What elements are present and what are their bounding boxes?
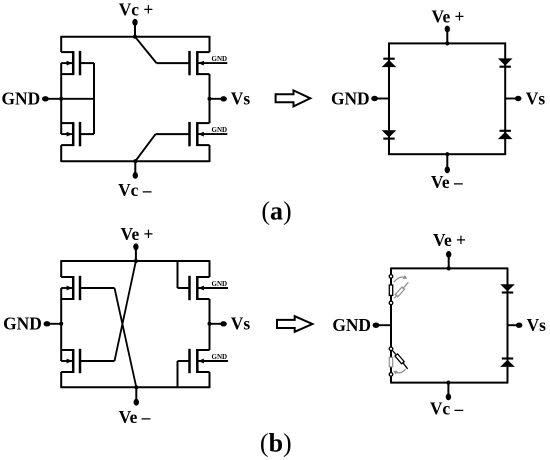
wire: bottom rail bbox=[61, 386, 209, 388]
M3 top-right bulk wire to GND with arrow bbox=[198, 62, 227, 64]
M4 bottom-right bulk wire to GND with arrow bbox=[198, 133, 227, 135]
M4 bottom-right channel bar bbox=[196, 122, 199, 146]
svg-text:Ve +: Ve + bbox=[121, 224, 154, 244]
node Vc+ terminal bbox=[134, 25, 136, 37]
M4 bottom-right gate wire bbox=[156, 133, 190, 135]
wire: left vertical segments bbox=[390, 268, 392, 274]
M6 bottom-left channel bar bbox=[72, 349, 75, 373]
M5 top-left gate bar bbox=[79, 276, 82, 300]
M8 bottom-right gate wire bbox=[178, 360, 190, 362]
M1 top-left gate wire bbox=[80, 62, 94, 64]
svg-text:GND: GND bbox=[212, 126, 228, 134]
wire: left rail upper segment bbox=[60, 260, 62, 277]
M2 bottom-left bulk wire with arrow bbox=[61, 133, 72, 135]
M4 bottom-right source wire bbox=[197, 144, 209, 146]
transistor M6 bottom-left (NMOS, channel bar left, gate to right) bbox=[61, 349, 114, 373]
M1 top-left gate bar bbox=[79, 51, 82, 75]
svg-text:Vs: Vs bbox=[231, 89, 251, 109]
block arrow (a) bbox=[276, 90, 311, 106]
svg-text:Vs: Vs bbox=[527, 315, 547, 335]
M8 bottom-right source wire bbox=[197, 371, 209, 373]
M7 top-right gate wire bbox=[178, 287, 190, 289]
switched resistor R2 (bottom-left) bbox=[389, 347, 407, 376]
M1 top-left bulk wire with arrow bbox=[61, 62, 72, 64]
node Vs terminal bbox=[210, 323, 224, 325]
transistor M4 bottom-right (NMOS, channel bar right, gate to left) bbox=[156, 122, 228, 146]
M3 top-right source wire bbox=[197, 73, 209, 75]
M8 bottom-right bulk wire to GND with arrow bbox=[198, 360, 228, 362]
block arrow (b) bbox=[277, 316, 312, 332]
svg-text:Ve +: Ve + bbox=[433, 230, 466, 250]
wire: right vertical bbox=[507, 268, 509, 382]
svg-text:GND: GND bbox=[212, 353, 228, 361]
wire: diagonal Vc- to M4 gate bbox=[135, 134, 155, 161]
junction: Ve+ on square bbox=[447, 266, 451, 270]
wire: right rail middle segment bbox=[209, 74, 211, 123]
M6 bottom-left drain wire bbox=[61, 349, 73, 351]
svg-text:Vc –: Vc – bbox=[118, 180, 152, 200]
svg-text:Ve –: Ve – bbox=[119, 407, 151, 427]
M3 top-right drain wire bbox=[197, 51, 209, 53]
wire: right rail upper segment bbox=[209, 260, 211, 277]
M3 top-right gate bar bbox=[188, 51, 191, 75]
transistor M3 top-right (NMOS, channel bar right, gate to left) bbox=[157, 51, 228, 75]
junction: Vc- on square bbox=[446, 381, 450, 385]
wire: top rail of square bbox=[390, 267, 508, 269]
svg-text:Vs: Vs bbox=[526, 88, 546, 108]
wire: M7 gate leg to top rail bbox=[177, 261, 179, 288]
node GND terminal bbox=[376, 324, 391, 326]
junction: Vc- on bottom rail bbox=[133, 159, 137, 163]
node Ve- terminal bbox=[135, 387, 137, 400]
M1 top-left source wire bbox=[61, 73, 73, 75]
M5 top-left source wire bbox=[61, 298, 73, 300]
diode D1 top-left (pointing up) bbox=[382, 60, 397, 67]
M2 bottom-left gate wire bbox=[80, 133, 94, 135]
M6 bottom-left gate bar bbox=[79, 349, 82, 373]
wire: left rail lower segment bbox=[60, 372, 62, 388]
M8 bottom-right drain wire bbox=[197, 349, 209, 351]
junction: Ve+ on square bbox=[445, 41, 449, 45]
diode D5 top-right (pointing down) bbox=[500, 284, 515, 291]
wire: right rail lower segment bbox=[209, 145, 211, 162]
M5 top-left gate wire bbox=[80, 287, 115, 289]
node GND terminal bbox=[45, 98, 94, 100]
M5 top-left bulk wire with arrow bbox=[61, 287, 72, 289]
svg-text:Ve –: Ve – bbox=[431, 172, 463, 192]
M8 bottom-right channel bar bbox=[196, 349, 199, 373]
svg-text:GND: GND bbox=[212, 55, 228, 63]
M1 top-left drain wire bbox=[61, 51, 73, 53]
wire: bridge square bbox=[389, 43, 505, 154]
node GND terminal bbox=[47, 323, 61, 325]
wire: diagonal Vc+ to M3 gate bbox=[135, 37, 157, 63]
M7 top-right source wire bbox=[197, 298, 209, 300]
svg-text:GND: GND bbox=[2, 89, 41, 109]
node Vc- terminal bbox=[134, 161, 136, 173]
M7 top-right drain wire bbox=[197, 276, 209, 278]
svg-text:(b): (b) bbox=[260, 429, 292, 458]
M6 bottom-left bulk wire with arrow bbox=[61, 360, 72, 362]
transistor M7 top-right (NMOS, channel bar right, gate to left) bbox=[178, 276, 229, 300]
diode D2 top-right (pointing down) bbox=[498, 58, 513, 65]
node Vs terminal bbox=[505, 98, 518, 100]
svg-text:GND: GND bbox=[331, 88, 370, 108]
wire: left gates vertical bbox=[93, 63, 95, 134]
wire: diagonal M5 gate to Ve- bbox=[115, 288, 137, 387]
wire: left bulk/source vertical bbox=[60, 288, 62, 361]
M4 bottom-right drain wire bbox=[197, 122, 209, 124]
wire: diagonal Ve+ to M6 gate bbox=[115, 261, 136, 361]
node Ve+ terminal bbox=[446, 32, 448, 44]
M1 top-left channel bar bbox=[72, 51, 75, 75]
M2 bottom-left channel bar bbox=[72, 122, 75, 146]
M3 top-right gate wire bbox=[157, 62, 190, 64]
diode D4 bottom-right (pointing up) bbox=[498, 132, 513, 139]
R1 alternate position (gray ghost resistor) bbox=[394, 282, 408, 298]
R1 rotation arrow (gray) bbox=[394, 277, 406, 282]
wire: right rail upper segment bbox=[209, 36, 211, 52]
M2 bottom-left gate bar bbox=[79, 122, 82, 146]
M2 bottom-left drain wire bbox=[61, 122, 73, 124]
transistor M2 bottom-left (NMOS, channel bar left, gate to right) bbox=[61, 122, 94, 146]
junction: Ve+ on top rail bbox=[134, 259, 138, 263]
diode D3 bottom-left (pointing down) bbox=[382, 130, 397, 137]
node Ve+ terminal bbox=[448, 257, 450, 268]
node Vs terminal bbox=[210, 98, 224, 100]
svg-text:GND: GND bbox=[212, 280, 228, 288]
wire: bottom rail of square bbox=[390, 382, 508, 384]
wire: M8 gate leg to bottom rail bbox=[177, 361, 179, 387]
node GND terminal bbox=[374, 98, 389, 100]
node Vc- terminal bbox=[447, 383, 449, 395]
wire: left bulk/source vertical bbox=[60, 63, 62, 134]
switched resistor R1 (top-left) bbox=[389, 275, 408, 305]
wire: left rail lower segment bbox=[60, 145, 62, 162]
M6 bottom-left gate wire bbox=[80, 360, 115, 362]
svg-text:Vc –: Vc – bbox=[430, 399, 464, 419]
wire: bottom rail bbox=[61, 160, 209, 162]
svg-text:GND: GND bbox=[3, 314, 42, 334]
transistor M8 bottom-right (NMOS, channel bar right, gate to left) bbox=[178, 349, 229, 373]
M5 top-left drain wire bbox=[61, 276, 73, 278]
svg-text:GND: GND bbox=[332, 315, 371, 335]
M6 bottom-left source wire bbox=[61, 371, 73, 373]
M4 bottom-right gate bar bbox=[188, 122, 191, 146]
M7 top-right gate bar bbox=[188, 276, 191, 300]
svg-text:Vc +: Vc + bbox=[119, 0, 154, 20]
wire: left rail upper segment bbox=[60, 36, 62, 52]
svg-text:Vs: Vs bbox=[231, 314, 251, 334]
node Ve+ terminal bbox=[135, 249, 137, 261]
node Ve- terminal bbox=[446, 154, 448, 167]
wire: top rail bbox=[61, 260, 209, 262]
node Vs terminal bbox=[508, 324, 519, 326]
transistor M5 top-left (NMOS, channel bar left, gate to right) bbox=[61, 276, 114, 300]
M5 top-left channel bar bbox=[72, 276, 75, 300]
wire: top rail bbox=[61, 36, 209, 38]
svg-text:(a): (a) bbox=[261, 197, 291, 226]
transistor M1 top-left (NMOS, channel bar left, gate to right) bbox=[61, 51, 94, 75]
M7 top-right bulk wire to GND with arrow bbox=[198, 287, 228, 289]
M3 top-right channel bar bbox=[196, 51, 199, 75]
M7 top-right channel bar bbox=[196, 276, 199, 300]
junction: Ve- on bottom rail bbox=[134, 385, 138, 389]
M8 bottom-right gate bar bbox=[188, 349, 191, 373]
diode D6 bottom-right (pointing up) bbox=[500, 360, 515, 367]
M2 bottom-left source wire bbox=[61, 144, 73, 146]
junction: Vc+ on top rail bbox=[133, 35, 137, 39]
junction: Ve- on square bbox=[445, 152, 449, 156]
wire: right rail middle segment bbox=[209, 299, 211, 350]
wire: right rail lower segment bbox=[209, 372, 211, 388]
R2 rotation arrow (gray) bbox=[395, 369, 405, 373]
R2 engaged diagonal resistor (black) bbox=[392, 350, 407, 369]
svg-text:Ve +: Ve + bbox=[432, 7, 465, 27]
